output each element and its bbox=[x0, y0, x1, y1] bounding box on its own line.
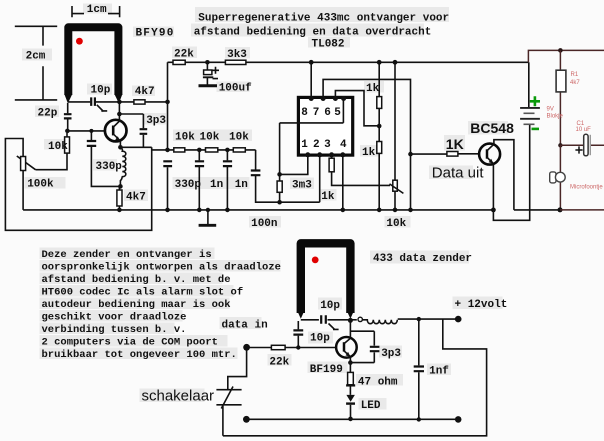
svg-text:C1: C1 bbox=[577, 121, 585, 127]
svg-text:oorspronkelijk ontworpen als d: oorspronkelijk ontworpen als draadloze bbox=[42, 261, 281, 273]
svg-text:1K: 1K bbox=[446, 136, 464, 152]
svg-text:1cm: 1cm bbox=[87, 4, 107, 16]
svg-text:Microfoontje: Microfoontje bbox=[570, 185, 603, 191]
svg-text:TL082: TL082 bbox=[312, 38, 345, 50]
svg-text:bruikbaar tot ongeveer 100 mtr: bruikbaar tot ongeveer 100 mtr. bbox=[42, 349, 237, 361]
svg-text:3p3: 3p3 bbox=[146, 115, 166, 127]
svg-text:8: 8 bbox=[301, 107, 308, 119]
svg-text:BF199: BF199 bbox=[310, 364, 343, 376]
svg-text:4k7: 4k7 bbox=[126, 192, 146, 204]
svg-text:330p: 330p bbox=[96, 161, 123, 173]
svg-text:Deze zender en ontvanger is: Deze zender en ontvanger is bbox=[42, 249, 212, 261]
svg-text:9V: 9V bbox=[547, 107, 554, 113]
svg-text:10k: 10k bbox=[200, 131, 220, 143]
svg-text:47 ohm: 47 ohm bbox=[358, 377, 398, 389]
svg-text:3k3: 3k3 bbox=[227, 49, 247, 61]
svg-text:100k: 100k bbox=[27, 179, 54, 191]
svg-text:2: 2 bbox=[313, 139, 320, 151]
svg-text:+ 12volt: + 12volt bbox=[455, 299, 508, 311]
svg-text:10p: 10p bbox=[320, 300, 340, 312]
svg-text:3: 3 bbox=[324, 139, 331, 151]
svg-text:3m3: 3m3 bbox=[292, 180, 312, 192]
svg-text:5: 5 bbox=[334, 107, 341, 119]
svg-text:4k7: 4k7 bbox=[135, 86, 155, 98]
svg-text:10p: 10p bbox=[91, 85, 111, 97]
svg-text:10k: 10k bbox=[229, 131, 249, 143]
svg-text:330p: 330p bbox=[175, 179, 202, 191]
svg-text:10k: 10k bbox=[48, 141, 68, 153]
svg-text:R1: R1 bbox=[571, 72, 579, 78]
svg-text:10 uF: 10 uF bbox=[576, 127, 592, 133]
svg-text:22k: 22k bbox=[174, 49, 194, 61]
svg-text:1n: 1n bbox=[210, 179, 223, 191]
svg-text:1k: 1k bbox=[321, 191, 335, 203]
svg-text:afstand bediening en data over: afstand bediening en data overdracht bbox=[194, 26, 432, 38]
svg-text:10k: 10k bbox=[386, 218, 406, 230]
svg-text:10k: 10k bbox=[175, 131, 195, 143]
svg-text:LED: LED bbox=[361, 400, 381, 412]
svg-text:afstand bediening b. v. met d: afstand bediening b. v. met de bbox=[42, 274, 231, 286]
svg-text:data in: data in bbox=[222, 320, 268, 332]
svg-text:1: 1 bbox=[301, 139, 308, 151]
svg-text:433 data zender: 433 data zender bbox=[373, 253, 472, 265]
svg-text:autodeur bediening maar is ook: autodeur bediening maar is ook bbox=[42, 299, 231, 311]
svg-text:HT600 codec Ic als alarm slot: HT600 codec Ic als alarm slot of bbox=[42, 286, 244, 298]
svg-text:22p: 22p bbox=[38, 108, 58, 120]
svg-text:BC548: BC548 bbox=[470, 120, 514, 136]
svg-text:2 computers via de COM poort: 2 computers via de COM poort bbox=[42, 336, 218, 348]
svg-text:Blokje: Blokje bbox=[547, 114, 564, 120]
svg-text:verbinding tussen b. v.: verbinding tussen b. v. bbox=[42, 324, 187, 336]
svg-text:Superregenerative 433mc ontvan: Superregenerative 433mc ontvanger voor bbox=[198, 12, 449, 24]
svg-text:1k: 1k bbox=[366, 83, 380, 95]
svg-text:22k: 22k bbox=[269, 357, 289, 369]
svg-text:6: 6 bbox=[324, 107, 331, 119]
svg-text:10p: 10p bbox=[310, 332, 330, 344]
svg-text:1n: 1n bbox=[235, 179, 248, 191]
svg-text:4: 4 bbox=[340, 139, 347, 151]
svg-text:Data uit: Data uit bbox=[432, 165, 485, 182]
svg-text:3p3: 3p3 bbox=[381, 348, 401, 360]
svg-text:BFY90: BFY90 bbox=[136, 28, 175, 40]
svg-text:2cm: 2cm bbox=[26, 51, 46, 63]
svg-text:1nf: 1nf bbox=[429, 366, 449, 378]
svg-text:geschikt voor draadloze: geschikt voor draadloze bbox=[42, 311, 187, 323]
svg-text:1k: 1k bbox=[362, 147, 376, 159]
svg-text:100uf: 100uf bbox=[219, 83, 252, 95]
svg-text:100n: 100n bbox=[251, 218, 277, 230]
svg-text:4k7: 4k7 bbox=[570, 80, 580, 86]
svg-text:7: 7 bbox=[313, 107, 320, 119]
svg-text:schakelaar: schakelaar bbox=[142, 388, 215, 405]
